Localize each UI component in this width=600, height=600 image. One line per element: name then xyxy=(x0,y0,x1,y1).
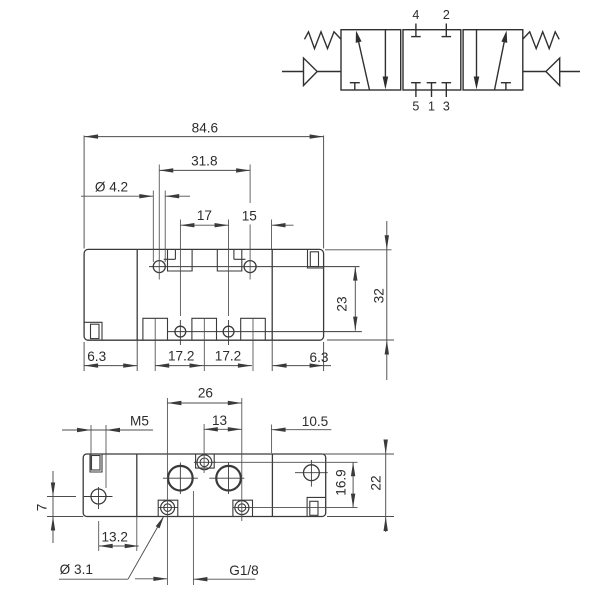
top step notch left xyxy=(168,249,193,271)
end cap joint line left (side view) xyxy=(136,249,138,340)
bottom right hole (double circle) xyxy=(235,501,249,515)
centre box: blocked port 2 (lead and tee) xyxy=(445,24,447,37)
dim 26 line with arrows xyxy=(167,402,241,404)
top middle hole (double circle) xyxy=(197,455,212,470)
dim 16.9 line with arrows xyxy=(352,462,354,507)
wire: left pilot lead xyxy=(282,71,304,73)
box left: blocked port 5 xyxy=(350,82,360,84)
box right: flow path 4 to 5 (down arrow) xyxy=(476,30,478,78)
svg-text:G1/8: G1/8 xyxy=(229,563,258,578)
main port circle B (G1/8) xyxy=(216,466,241,491)
dim 31.8 right extension (hole centre) xyxy=(249,165,251,204)
bottom left hole diam 3.1 (double circle) xyxy=(161,501,175,515)
end cap joint line right (bottom view) xyxy=(271,454,273,517)
svg-text:1: 1 xyxy=(428,100,435,114)
svg-text:7: 7 xyxy=(34,504,49,512)
top middle boss cup xyxy=(196,454,215,468)
dim 13 line with arrows xyxy=(204,428,242,430)
dim M5 extension lines xyxy=(90,425,92,470)
mounting hole top left (diam 4.2) xyxy=(153,261,165,273)
position box centre xyxy=(403,30,461,90)
box left: flow path 2 to 3 (down arrow) xyxy=(384,30,386,78)
pilot port box top right (side view) xyxy=(308,249,324,268)
G1/8 leader line and arrow xyxy=(193,578,255,580)
G1/8 extension line from port edge xyxy=(192,491,194,585)
bottom dim 17.2 right line with arrows xyxy=(204,365,252,367)
svg-text:6.3: 6.3 xyxy=(310,350,329,365)
box right: blocked port 3 xyxy=(501,82,511,84)
svg-text:Ø 3.1: Ø 3.1 xyxy=(60,562,93,577)
centre box: blocked port 3 (lead and tee) xyxy=(445,83,447,97)
dim 13.2 line with arrows xyxy=(99,545,139,547)
small step right xyxy=(234,249,246,259)
svg-text:26: 26 xyxy=(198,386,213,401)
svg-text:Ø 4.2: Ø 4.2 xyxy=(95,179,128,194)
wire: body to right pilot xyxy=(523,71,546,73)
svg-text:22: 22 xyxy=(369,475,384,490)
dia 3.1 leader line xyxy=(59,578,128,580)
svg-text:13.2: 13.2 xyxy=(101,529,127,544)
bottom notch 1 (port boss) xyxy=(143,318,168,340)
dim 7 extension lines xyxy=(47,496,76,498)
pilot port box bottom right (bottom view) xyxy=(307,497,326,516)
pilot port M5 circle left xyxy=(91,489,106,504)
pilot actuator left (triangle) xyxy=(304,58,318,86)
spring left xyxy=(305,32,341,49)
pilot port box top left (bottom view) xyxy=(90,454,102,472)
svg-text:3: 3 xyxy=(443,100,450,114)
dim 17 extension lines down to bottom holes xyxy=(179,220,181,317)
bottom dims extension lines xyxy=(83,342,85,371)
valve body side view outline xyxy=(84,249,324,340)
svg-text:16.9: 16.9 xyxy=(334,469,349,495)
svg-text:13: 13 xyxy=(212,413,227,428)
wire: right pilot lead xyxy=(560,71,580,73)
dim 31.8 line with arrows xyxy=(159,169,250,171)
bottom dim 6.3 right line with arrows xyxy=(273,365,331,367)
bottom notch 2 (port boss) xyxy=(192,318,217,340)
dim 10.5 line with arrows xyxy=(271,429,331,431)
dim 84.6 line with arrows xyxy=(84,136,324,138)
dim 15 right extension xyxy=(271,220,273,250)
end cap joint line left (bottom view) xyxy=(136,454,138,517)
svg-text:23: 23 xyxy=(335,296,350,311)
bottom hole left (side view) xyxy=(175,326,186,337)
svg-text:17.2: 17.2 xyxy=(168,348,194,363)
bottom dim 6.3 left line with arrows xyxy=(84,365,137,367)
dim 16.9 extension lines xyxy=(213,461,358,463)
dim 15 outside arrow and line xyxy=(272,224,294,226)
small step left xyxy=(164,249,176,259)
dim 10.5 left extension xyxy=(271,425,273,454)
bottom left boss cup xyxy=(158,500,178,516)
svg-text:5: 5 xyxy=(412,100,419,114)
dim 13.2 extension lines xyxy=(98,521,100,551)
dim 22 line with outside arrows xyxy=(385,440,387,532)
dim 7 line with outside arrows xyxy=(52,471,54,543)
main port circle A (G1/8) xyxy=(168,466,193,491)
svg-text:10.5: 10.5 xyxy=(302,414,328,429)
dim 26 extension lines through body xyxy=(166,398,168,585)
pilot actuator right (triangle) xyxy=(546,58,560,86)
svg-text:31.8: 31.8 xyxy=(191,153,217,168)
seam line through top holes xyxy=(149,266,360,268)
svg-text:17: 17 xyxy=(197,208,212,223)
dim 32 extension lines xyxy=(325,249,392,251)
centre box: blocked port 4 (lead and tee) xyxy=(415,24,417,37)
pilot port circle right xyxy=(304,465,320,481)
box right: flow path 1 to 2 (diagonal arrow) xyxy=(495,34,506,91)
svg-text:M5: M5 xyxy=(130,414,149,429)
dim M5 line with outside arrows xyxy=(62,429,153,431)
seam line through bottom holes xyxy=(167,331,362,333)
svg-text:15: 15 xyxy=(242,209,257,224)
dim 23 line with arrows xyxy=(354,267,356,331)
svg-text:17.2: 17.2 xyxy=(215,348,241,363)
end cap joint line right (side view) xyxy=(271,249,273,340)
position box left xyxy=(341,30,401,90)
bottom hole right (side view) xyxy=(223,326,234,337)
svg-text:6.3: 6.3 xyxy=(87,349,106,364)
dim 32 line with outside arrows xyxy=(386,221,388,380)
position box right xyxy=(463,30,523,90)
dim 13 left extension xyxy=(203,424,205,473)
bottom notch 3 (port boss) xyxy=(241,318,266,340)
pilot port box bottom left (side view) xyxy=(84,322,102,340)
dim 17 line with arrows xyxy=(180,224,228,226)
dia 3.1 horizontal arrow to hole centreline xyxy=(135,578,167,580)
svg-text:2: 2 xyxy=(443,8,450,22)
svg-text:32: 32 xyxy=(371,288,386,303)
spring right xyxy=(523,32,559,49)
centre box: blocked port 5 (lead and tee) xyxy=(415,83,417,97)
dim 84.6 extension lines xyxy=(83,136,85,249)
wire: left pilot to body xyxy=(317,71,341,73)
svg-text:4: 4 xyxy=(412,8,419,22)
dia 4.2 hole edge extension lines xyxy=(152,191,154,263)
box left: flow path 1 to 4 (diagonal arrow) xyxy=(357,33,370,90)
mounting hole top right (diam 4.2) xyxy=(244,261,256,273)
svg-text:84.6: 84.6 xyxy=(192,120,218,135)
top step notch right xyxy=(217,249,242,271)
dia 4.2 leader line and arrows xyxy=(81,195,153,197)
bottom dim 17.2 left line with arrows xyxy=(155,365,203,367)
dim 22 extension lines xyxy=(322,453,394,455)
bottom right boss cup xyxy=(233,500,253,516)
valve body bottom view outline xyxy=(83,454,326,517)
centre box: blocked port 1 (lead and tee) xyxy=(431,83,433,97)
dim 31.8 left extension (hole centre) xyxy=(158,165,160,280)
